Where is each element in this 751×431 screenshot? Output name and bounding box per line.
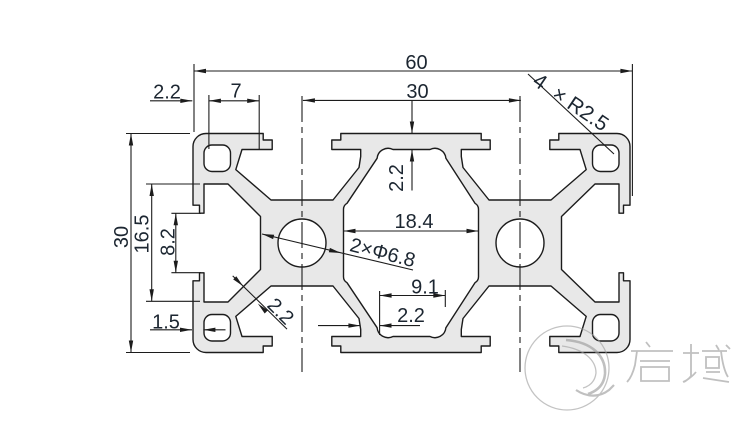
svg-text:2.2: 2.2: [386, 164, 408, 192]
dim 60 top: [193, 64, 195, 132]
corner cavity top-right: [593, 145, 620, 172]
label 4xR2.5: [528, 74, 614, 154]
svg-text:30: 30: [111, 226, 133, 248]
bore hole 2: [496, 219, 544, 267]
leader 2.2 web bottom-left: [233, 276, 287, 329]
dim 16.5 left: [146, 183, 200, 185]
dim 18.4: [344, 230, 479, 232]
svg-text:18.4: 18.4: [395, 211, 434, 233]
svg-text:60: 60: [405, 52, 427, 74]
centerline hole 2: [519, 96, 521, 372]
svg-text:9.1: 9.1: [411, 277, 439, 299]
corner cavity bottom-right: [593, 315, 620, 342]
dim 8.2 left: [171, 212, 201, 214]
leader 2x dia 6.8: [262, 234, 413, 270]
corner cavity bottom-left: [204, 315, 231, 342]
svg-text:16.5: 16.5: [131, 215, 153, 254]
svg-text:7: 7: [230, 81, 241, 103]
svg-text:8.2: 8.2: [157, 228, 179, 256]
dim 9.1 bottom-center: [379, 291, 381, 335]
aluminum profile cross-section: [193, 134, 630, 353]
svg-text:2.2: 2.2: [397, 305, 425, 327]
dim 30 left: [126, 133, 190, 135]
watermark logo circle: [525, 326, 614, 410]
centerline hole 1: [301, 96, 303, 372]
corner cavity top-left: [204, 145, 231, 172]
dim 2.2 top-center wall: [411, 100, 413, 133]
dim 7 top: [258, 95, 260, 149]
svg-text:30: 30: [406, 81, 428, 103]
bore hole 1: [278, 219, 326, 267]
dim 30 top-center: [303, 99, 521, 101]
svg-text:2.2: 2.2: [153, 82, 181, 104]
watermark text 启域: [627, 342, 730, 382]
